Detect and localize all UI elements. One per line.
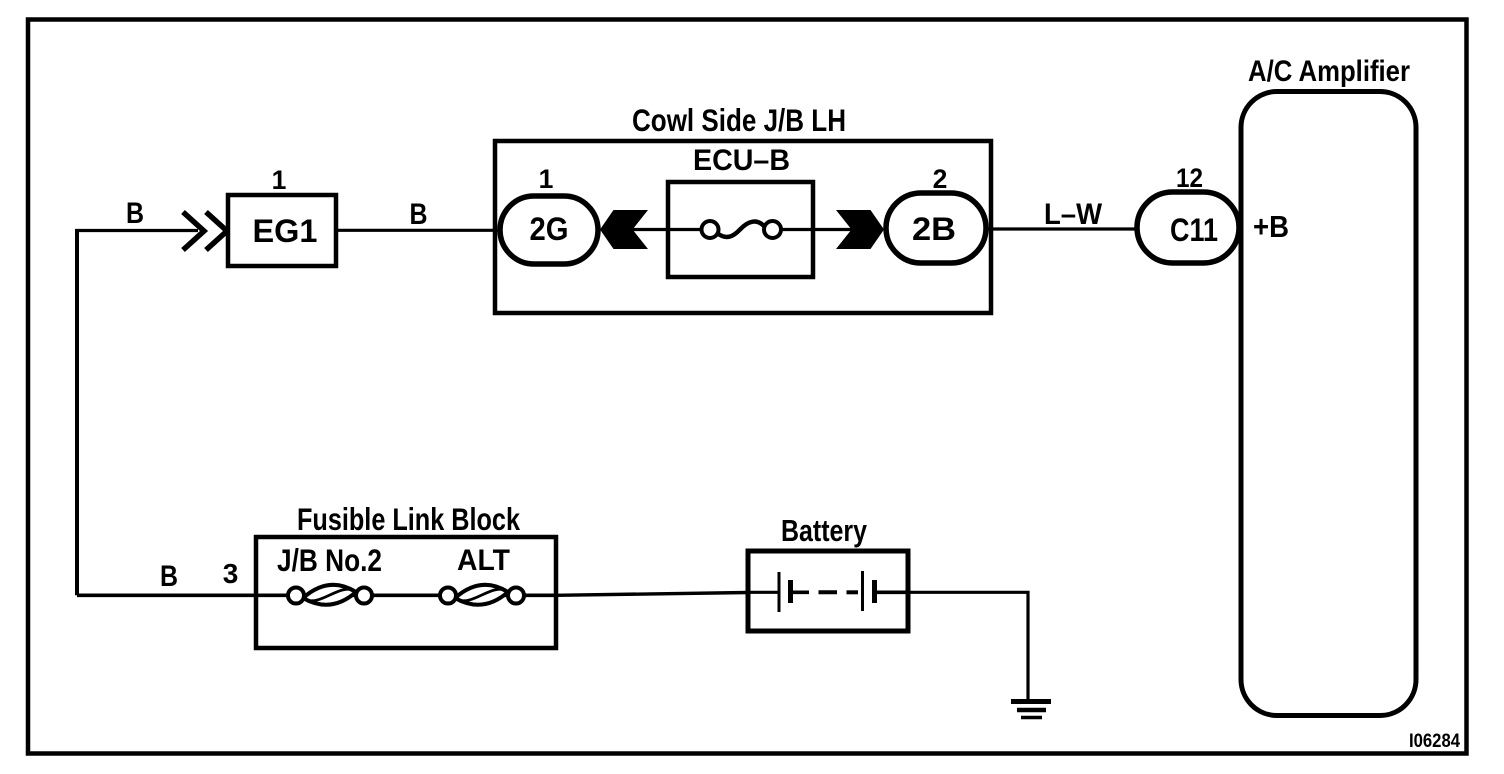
svg-text:Cowl Side J/B LH: Cowl Side J/B LH [632,102,846,138]
battery internal: cell 2 [861,571,864,611]
svg-text:2G: 2G [530,211,569,247]
wire B: bottom run from left vertical to battery [77,593,556,597]
svg-text:B: B [160,560,178,593]
svg-text:Fusible Link Block: Fusible Link Block [297,501,520,537]
svg-text:L–W: L–W [1044,198,1103,231]
svg-text:C11: C11 [1170,212,1218,248]
svg-text:+B: +B [1253,209,1289,244]
svg-text:EG1: EG1 [253,213,318,249]
svg-text:2B: 2B [912,211,956,247]
svg-text:1: 1 [272,165,287,195]
svg-text:ALT: ALT [457,544,510,577]
svg-text:J/B No.2: J/B No.2 [277,542,382,578]
wire B: EG1 to 2G [336,229,500,232]
svg-text:A/C Amplifier: A/C Amplifier [1248,55,1410,88]
terminal 2B [886,193,986,263]
terminal C11 [1137,192,1239,263]
svg-text:12: 12 [1176,163,1203,193]
svg-text:2: 2 [933,164,948,194]
connector EG1 [228,195,336,266]
svg-text:I06284: I06284 [1409,730,1460,752]
wire: battery to ground [908,592,1028,700]
arrow (left, toward 2G) [600,210,648,249]
wire: fuse to right arrow [813,228,855,231]
connector chevron 2 (into EG1) [206,212,227,250]
terminal 2G [500,196,598,264]
battery internal: dashes [819,590,838,594]
wire L-W: 2B to C11 [986,227,1140,230]
svg-text:B: B [410,198,428,231]
battery internal: cell 1 [748,591,779,594]
connector chevron 1 (into EG1) [183,212,204,250]
ground [1011,699,1051,704]
svg-text:ECU–B: ECU–B [693,144,790,177]
svg-text:B: B [126,197,144,230]
wire: arrow to fuse [630,228,703,231]
junction block: Cowl Side J/B LH [495,141,991,313]
wire B: left vertical from EG1 branch down to bottom run [75,231,79,596]
svg-text:1: 1 [539,164,554,194]
wire B: top horizontal into EG1 connector [75,229,198,232]
svg-text:Battery: Battery [781,514,867,548]
arrow (right, toward 2B) [836,210,884,249]
svg-text:3: 3 [223,558,239,589]
